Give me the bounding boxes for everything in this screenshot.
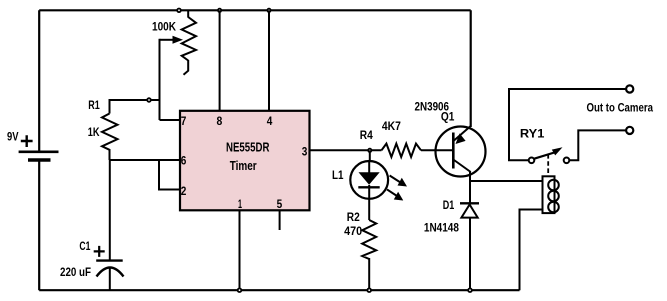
resistor R4 4K7 — [360, 119, 421, 157]
wire pin 1 — [239, 210, 241, 290]
diode D1 1N4148 — [424, 198, 479, 235]
relay RY1 coil — [543, 176, 559, 213]
wire Q1 collector down — [469, 171, 471, 204]
relay switch contacts — [529, 158, 570, 164]
wire switch left to top terminal — [509, 89, 626, 160]
wire collector branch to relay coil — [470, 180, 542, 182]
svg-text:7: 7 — [181, 114, 187, 128]
node dot LED junction — [367, 148, 372, 153]
node dot R2 to rail — [367, 288, 372, 293]
svg-text:470: 470 — [344, 224, 362, 238]
node dot on R1 top wire — [146, 97, 151, 102]
transistor Q1 2N3906 — [415, 100, 486, 177]
node dot on top rail (pin 8) — [217, 8, 222, 13]
wire R4 to Q1 base — [421, 149, 453, 151]
svg-text:1K: 1K — [88, 125, 100, 139]
potentiometer 100K — [152, 10, 196, 75]
wire R1 bottom to pin 6 — [110, 159, 180, 161]
svg-text:6: 6 — [181, 154, 187, 168]
wire pin 3 to R4 — [310, 149, 382, 151]
wire left vertical (battery top) — [38, 10, 40, 151]
terminal circle top — [626, 85, 633, 92]
svg-text:RY1: RY1 — [520, 127, 545, 141]
svg-text:220 uF: 220 uF — [60, 265, 91, 279]
svg-text:8: 8 — [217, 114, 223, 128]
svg-text:C1: C1 — [79, 239, 90, 253]
node dot on top rail (pot) — [176, 8, 181, 13]
relay actuation dashed line — [547, 154, 549, 176]
svg-text:9V: 9V — [7, 132, 19, 144]
resistor R2 470 — [344, 198, 376, 290]
battery 9V — [7, 132, 59, 161]
svg-text:D1: D1 — [443, 198, 455, 212]
wire D1 to bottom rail — [469, 218, 471, 291]
svg-text:NE555DR: NE555DR — [226, 140, 270, 155]
svg-text:R4: R4 — [360, 128, 373, 142]
wire battery to bottom rail — [38, 160, 40, 290]
wire switch right to bottom terminal — [570, 130, 627, 160]
svg-text:5: 5 — [277, 197, 283, 211]
svg-text:4: 4 — [267, 114, 273, 128]
wire pin 5 stub — [279, 210, 281, 230]
relay switch arm — [534, 147, 563, 159]
LED light arrows — [387, 176, 407, 201]
wire pin 8 — [219, 10, 221, 111]
wire bracket pin6 to pin2 — [159, 160, 180, 190]
LED L1 — [332, 150, 388, 199]
wire Q1 emitter to top rail — [470, 10, 472, 127]
wire pin 7 — [160, 119, 180, 121]
terminal circle bottom — [626, 127, 633, 134]
capacitor C1 220uF — [60, 160, 124, 290]
svg-text:L1: L1 — [332, 168, 344, 182]
wire pin 4 — [268, 10, 270, 111]
svg-text:Q1: Q1 — [441, 110, 455, 124]
svg-text:1N4148: 1N4148 — [424, 221, 459, 235]
svg-text:4K7: 4K7 — [382, 119, 401, 133]
wire coil bottom to ground — [520, 210, 543, 291]
svg-text:R2: R2 — [347, 210, 360, 224]
node dot on top rail (pin 4) — [267, 8, 272, 13]
resistor R1 1K — [88, 98, 160, 160]
node dot pin1 to rail — [237, 288, 242, 293]
wire bottom rail — [39, 289, 519, 291]
wire top rail — [39, 9, 471, 11]
node dot D1 to rail — [467, 288, 472, 293]
svg-text:1: 1 — [238, 197, 242, 211]
svg-text:Out to Camera: Out to Camera — [587, 101, 654, 115]
op-amp/timer IC U1 NE555DR — [180, 111, 310, 211]
svg-text:3: 3 — [302, 145, 308, 159]
svg-text:Timer: Timer — [230, 158, 257, 173]
svg-text:100K: 100K — [152, 20, 176, 34]
wiper arrow of 100K — [160, 36, 184, 120]
svg-text:2: 2 — [181, 184, 187, 198]
svg-text:R1: R1 — [88, 98, 100, 112]
